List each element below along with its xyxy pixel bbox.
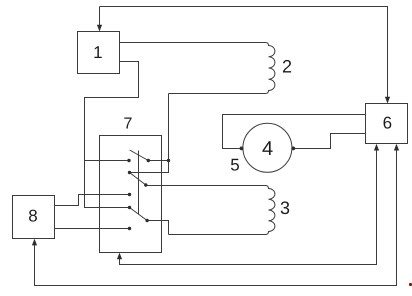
node switch2 pivot — [128, 171, 131, 174]
node switch1 left contact — [127, 159, 130, 162]
node junction coil2 drop — [167, 159, 170, 162]
wire branch to switch 1 left contact — [85, 160, 130, 162]
wire box1 lower step down left side — [85, 62, 139, 208]
svg-text:4: 4 — [262, 138, 273, 160]
svg-text:1: 1 — [93, 43, 102, 62]
wire box8 upper to contact row — [55, 195, 130, 206]
block 1 — [78, 32, 120, 74]
wire box1 right to coil 2 — [120, 42, 266, 44]
arrowhead into box6 bottom left — [374, 144, 379, 151]
wire switch1 pivot to coil2 drop junction — [149, 160, 169, 162]
svg-text:5: 5 — [230, 156, 239, 175]
node switch3 contact — [145, 219, 148, 222]
node switch1 pivot — [147, 159, 150, 162]
switch S1 blade — [130, 150, 149, 161]
arrowhead into box6 bottom right — [394, 144, 399, 151]
wire box8 lower to contact row — [55, 228, 130, 230]
wire into box 1 top — [99, 7, 101, 26]
svg-text:8: 8 — [28, 207, 37, 226]
switch S3 blade — [130, 208, 148, 221]
node motor left terminal — [240, 147, 244, 151]
wire motor left terminal to box 6 (top path) — [223, 115, 366, 149]
switch S2 blade — [130, 173, 146, 186]
arrowhead into box1 top — [97, 25, 102, 32]
node switch3 pivot — [128, 206, 131, 209]
wire coil2 bottom drop to switch rows — [130, 94, 169, 173]
wire coil3 bottom step to switch3 contact — [147, 221, 168, 235]
node motor right terminal — [291, 147, 295, 151]
node contact from box8 lower — [128, 227, 131, 230]
motor 4 circle — [243, 123, 292, 172]
svg-text:2: 2 — [282, 57, 292, 77]
node contact from box8 upper — [128, 193, 131, 196]
inductor 2 — [169, 43, 275, 94]
arrowhead into box8 bottom — [32, 239, 37, 246]
node switch2 contact — [144, 183, 147, 186]
wire box6 bottom to box7 bottom (inner loop) — [120, 151, 377, 265]
svg-text:6: 6 — [383, 114, 392, 133]
wire box6 bottom to box8 bottom (outer loop) — [35, 151, 397, 286]
svg-text:3: 3 — [280, 198, 290, 218]
wire top feedback line — [100, 7, 388, 98]
inductor 3 — [169, 186, 275, 235]
arrowhead into box6 top — [385, 97, 390, 104]
arrowhead into box7 bottom — [117, 253, 122, 260]
wire switch2 contact to coil 3 top — [146, 185, 266, 187]
svg-text:7: 7 — [124, 116, 133, 133]
block 8 — [13, 196, 55, 239]
wire motor right terminal to box 6 — [293, 134, 365, 149]
block 7 — [100, 136, 162, 253]
switch linkage bar — [138, 151, 140, 215]
block 6 — [366, 104, 408, 144]
speck artifact bottom right — [409, 283, 412, 287]
